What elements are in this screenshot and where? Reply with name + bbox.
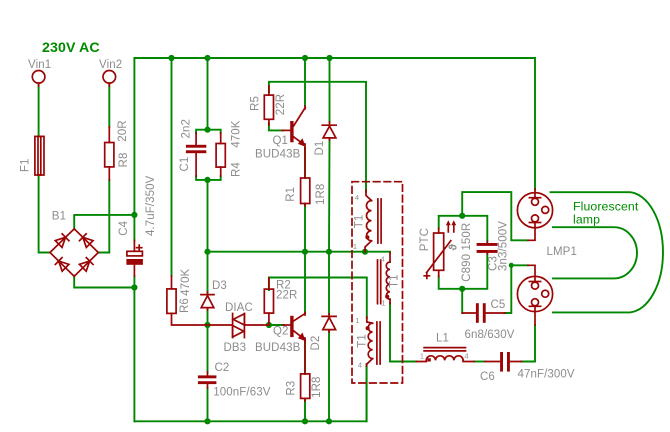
label BUD43B Q2: [255, 342, 301, 354]
diode D3: [201, 292, 214, 310]
label Q1: [273, 135, 289, 147]
label Q2: [273, 326, 289, 338]
node D2 bottom rail: [326, 418, 332, 424]
svg-text:T1: T1: [354, 215, 366, 229]
svg-text:1: 1: [355, 316, 359, 325]
label R3: [285, 381, 297, 396]
wire mid rail to D3: [207, 252, 209, 293]
wire B1 minus to C4 bottom node: [74, 276, 134, 288]
wire C2 to bottom rail: [207, 388, 209, 421]
capacitor C5: [462, 303, 505, 323]
label D1: [314, 141, 326, 156]
resistor R2: [264, 278, 273, 324]
svg-text:R3: R3: [285, 381, 297, 396]
node top rail C1R4: [204, 55, 210, 61]
wire R3 to bottom rail: [304, 400, 306, 421]
pin 1 winding1: [353, 242, 357, 251]
svg-text:R4: R4: [230, 162, 242, 177]
label 1R8 R1: [315, 184, 327, 205]
label T1 winding1: [354, 215, 366, 229]
capacitor C4 polarized: [126, 241, 142, 277]
fluorescent tube outline: [551, 192, 663, 312]
terminal Vin1: [32, 71, 45, 87]
wire C5 to lamp bottom socket top pin: [505, 265, 529, 313]
svg-text:47nF/300V: 47nF/300V: [518, 369, 575, 381]
label 2n2: [181, 119, 193, 139]
capacitor C6: [485, 352, 522, 372]
node top rail D1: [326, 55, 332, 61]
resistor R6: [167, 276, 206, 325]
wire C1R4 top link: [196, 130, 221, 133]
wire D1 to mid rail: [328, 139, 331, 252]
resistor R3: [301, 340, 310, 401]
svg-text:C4: C4: [118, 220, 130, 235]
svg-text:4: 4: [464, 352, 468, 361]
wire L1 to C6: [474, 361, 485, 363]
label 3n3/500V: [497, 221, 509, 271]
svg-text:DIAC: DIAC: [225, 302, 253, 314]
svg-text:Vin1: Vin1: [28, 59, 51, 71]
node R3 bottom rail: [302, 418, 308, 424]
svg-text:BUD43B: BUD43B: [255, 149, 301, 161]
transformer TR1 winding3: [366, 317, 381, 366]
label 230V AC: [42, 40, 100, 56]
svg-text:3n3/500V: 3n3/500V: [497, 221, 509, 271]
wire Q2 base row to diac: [269, 324, 284, 326]
wire loop bottom to C5: [461, 289, 463, 313]
svg-text:D2: D2: [310, 336, 322, 351]
svg-text:4: 4: [358, 361, 362, 370]
wire ptc loop top: [439, 216, 488, 242]
wire diac node to C2: [207, 325, 209, 372]
wire C6 to lamp bottom pin: [521, 325, 535, 362]
label BUD43B Q1: [255, 149, 301, 161]
svg-text:R1: R1: [285, 187, 297, 202]
wire Vin2 to R8: [108, 85, 110, 127]
wire ptc loop bottom: [439, 254, 488, 289]
svg-text:100nF/63V: 100nF/63V: [213, 387, 270, 399]
pin 1 winding3: [355, 316, 359, 325]
node ptc loop top: [459, 213, 465, 219]
svg-text:20R: 20R: [117, 120, 129, 141]
wire mid rail: [208, 251, 391, 254]
wire C4 bottom to bottom rail: [133, 276, 135, 421]
wire bottom GND rail: [134, 365, 366, 421]
label DB3: [224, 342, 247, 354]
ptc PTC: [424, 220, 459, 278]
svg-text:Vin2: Vin2: [99, 59, 122, 71]
svg-text:T1: T1: [388, 274, 400, 288]
node top rail R6: [168, 55, 174, 61]
svg-text:1: 1: [381, 299, 385, 308]
wire Q1 emitter to R1: [304, 148, 306, 178]
wire lamp top socket bottom pin link: [462, 192, 528, 240]
label Vin1: [28, 59, 51, 71]
label R2: [276, 279, 291, 291]
label Fluorescent lamp: [573, 200, 639, 227]
wire top rail to lamp top pin: [534, 58, 536, 189]
svg-text:R8: R8: [118, 153, 130, 168]
capacitor C1: [186, 133, 206, 176]
label 22R R5: [275, 94, 287, 115]
node mid rail D1 D2: [326, 249, 332, 255]
svg-text:C2: C2: [215, 362, 230, 374]
wire R8 to B1 right: [98, 180, 109, 253]
svg-text:PTC: PTC: [419, 228, 431, 251]
wire top rail to C1R4 top node: [207, 58, 209, 130]
label 1R8 R3: [311, 376, 323, 397]
svg-text:Q1: Q1: [273, 135, 289, 147]
wire TR1 winding2 to L1: [390, 303, 417, 362]
resistor R4: [216, 133, 225, 176]
lamp socket bottom LMP1: [517, 265, 552, 325]
wire R5 bottom to Q1 base: [269, 123, 283, 130]
node C1R4 bottom: [204, 177, 210, 183]
wire top +DC rail: [134, 57, 535, 59]
node top rail Q1 collector: [302, 55, 308, 61]
svg-text:D3: D3: [212, 280, 227, 292]
resistor R1: [301, 148, 310, 206]
label DIAC: [225, 302, 253, 314]
svg-text:230V AC: 230V AC: [42, 40, 100, 56]
label PTC: [419, 228, 431, 251]
diode D2: [322, 314, 336, 332]
svg-text:4: 4: [355, 193, 359, 202]
wire C1R4 bottom to mid rail: [207, 180, 209, 252]
svg-text:1R8: 1R8: [315, 184, 327, 205]
wire Vin1 to F1: [38, 85, 40, 136]
label L1: [436, 333, 449, 345]
svg-text:470K: 470K: [180, 268, 192, 295]
transformer TR1 winding1: [365, 190, 381, 252]
svg-text:Q2: Q2: [273, 326, 289, 338]
wire top rail to D1: [329, 58, 331, 122]
node C1R4 top: [204, 127, 210, 133]
label 6n8/630V: [465, 329, 515, 341]
label 4.7uF/350V: [145, 175, 157, 236]
svg-text:22R: 22R: [276, 290, 297, 302]
capacitor C3: [477, 242, 498, 255]
label D3: [212, 280, 227, 292]
svg-text:6n8/630V: 6n8/630V: [465, 329, 515, 341]
label R8: [118, 153, 130, 168]
svg-text:LMP1: LMP1: [547, 246, 577, 258]
svg-text:C6: C6: [480, 371, 495, 383]
pin 4 winding2: [380, 255, 384, 264]
node lamp link: [509, 263, 514, 268]
node diac left: [204, 322, 210, 328]
wire R2 top to TR1 winding3 pin1: [269, 278, 367, 319]
wire left drop to C4 top: [133, 58, 135, 215]
wire F1 to B1 left: [39, 175, 50, 253]
lamp socket top LMP1: [517, 189, 552, 240]
wire R1 to mid rail: [304, 205, 306, 252]
pin 4 winding1: [355, 193, 359, 202]
label 470K R6: [180, 268, 192, 295]
label 20R: [117, 120, 129, 141]
inductor L1: [417, 348, 475, 362]
svg-text:470K: 470K: [230, 120, 242, 147]
node C4 bottom: [131, 284, 137, 290]
node C4 top: [131, 212, 137, 218]
capacitor C2: [198, 372, 217, 388]
label T1 winding2: [388, 274, 400, 288]
diac DB3: [208, 314, 269, 338]
svg-text:B1: B1: [52, 211, 66, 223]
label R5: [250, 96, 262, 111]
fuse F1: [35, 136, 44, 175]
node mid rail TR1 pin1: [362, 249, 368, 255]
svg-text:1R8: 1R8: [311, 376, 323, 397]
label C1: [179, 157, 191, 172]
label R4: [230, 162, 242, 177]
wire winding3 bottom to rail: [366, 364, 368, 421]
label B1: [52, 211, 66, 223]
wire top rail to Q1 collector: [304, 58, 306, 106]
transformer TR1 winding2: [378, 253, 391, 304]
label R6: [179, 298, 191, 313]
pin 1 L1: [420, 352, 424, 361]
resistor R8: [105, 127, 114, 180]
wire mid rail to Q2 collector: [304, 252, 306, 313]
wire mid rail to D2: [328, 252, 330, 314]
resistor R5: [264, 86, 273, 125]
svg-text:1: 1: [353, 242, 357, 251]
label R1: [285, 187, 297, 202]
svg-text:Fluorescent: Fluorescent: [573, 200, 639, 214]
label C4: [118, 220, 130, 235]
label 22R R2: [276, 290, 297, 302]
pin 4 winding3: [358, 361, 362, 370]
svg-text:C5: C5: [491, 299, 506, 311]
label 47nF/300V: [518, 369, 575, 381]
svg-text:R6: R6: [179, 298, 191, 313]
pin 4 L1: [464, 352, 468, 361]
pin 1 winding2: [381, 299, 385, 308]
label C2: [215, 362, 230, 374]
wire C4 top lead net: [133, 215, 135, 241]
label C890 150R: [461, 223, 473, 282]
label 470K R4: [230, 120, 242, 147]
svg-text:L1: L1: [436, 333, 449, 345]
label T1 winding3: [357, 334, 369, 348]
node diac right: [266, 322, 272, 328]
label F1: [19, 158, 31, 172]
svg-text:D1: D1: [314, 141, 326, 156]
transformer TR1 box: [352, 182, 403, 383]
terminal Vin2: [103, 71, 116, 87]
svg-text:1: 1: [420, 352, 424, 361]
label LMP1: [547, 246, 577, 258]
svg-text:T1: T1: [357, 334, 369, 348]
svg-text:R5: R5: [250, 96, 262, 111]
svg-text:C1: C1: [179, 157, 191, 172]
wire B1 plus to C4 top node: [74, 215, 134, 230]
svg-text:4.7uF/350V: 4.7uF/350V: [145, 175, 157, 236]
wire D3 to diac node: [207, 309, 209, 326]
label C5: [491, 299, 506, 311]
wire R5 top to TR1 winding1 pin4: [269, 82, 366, 192]
diode D1: [322, 122, 336, 140]
wire top rail to R6: [171, 58, 173, 276]
node ptc loop bottom: [459, 286, 465, 292]
wire D2 to bottom rail: [328, 332, 330, 422]
bridge rectifier B1: [50, 229, 98, 276]
transistor Q1: [282, 106, 306, 149]
node mid rail D3: [204, 249, 210, 255]
svg-text:2n2: 2n2: [181, 119, 193, 139]
label C6: [480, 371, 495, 383]
wire C1R4 bottom link: [196, 176, 221, 180]
svg-text:C890 150R: C890 150R: [461, 223, 473, 282]
svg-text:22R: 22R: [275, 94, 287, 115]
svg-text:BUD43B: BUD43B: [255, 342, 301, 354]
svg-text:ϑ: ϑ: [448, 244, 460, 251]
label Vin2: [99, 59, 122, 71]
node mid rail R1 Q2: [302, 249, 308, 255]
svg-text:DB3: DB3: [224, 342, 247, 354]
label C3: [487, 256, 499, 271]
label D2: [310, 336, 322, 351]
transistor Q2: [283, 313, 306, 343]
svg-text:F1: F1: [19, 158, 31, 172]
node C2 bottom rail: [204, 418, 210, 424]
svg-text:lamp: lamp: [573, 213, 600, 227]
label 100nF/63V: [213, 387, 270, 399]
svg-text:4: 4: [380, 255, 384, 264]
wire Q2 emitter to R3: [304, 340, 306, 374]
